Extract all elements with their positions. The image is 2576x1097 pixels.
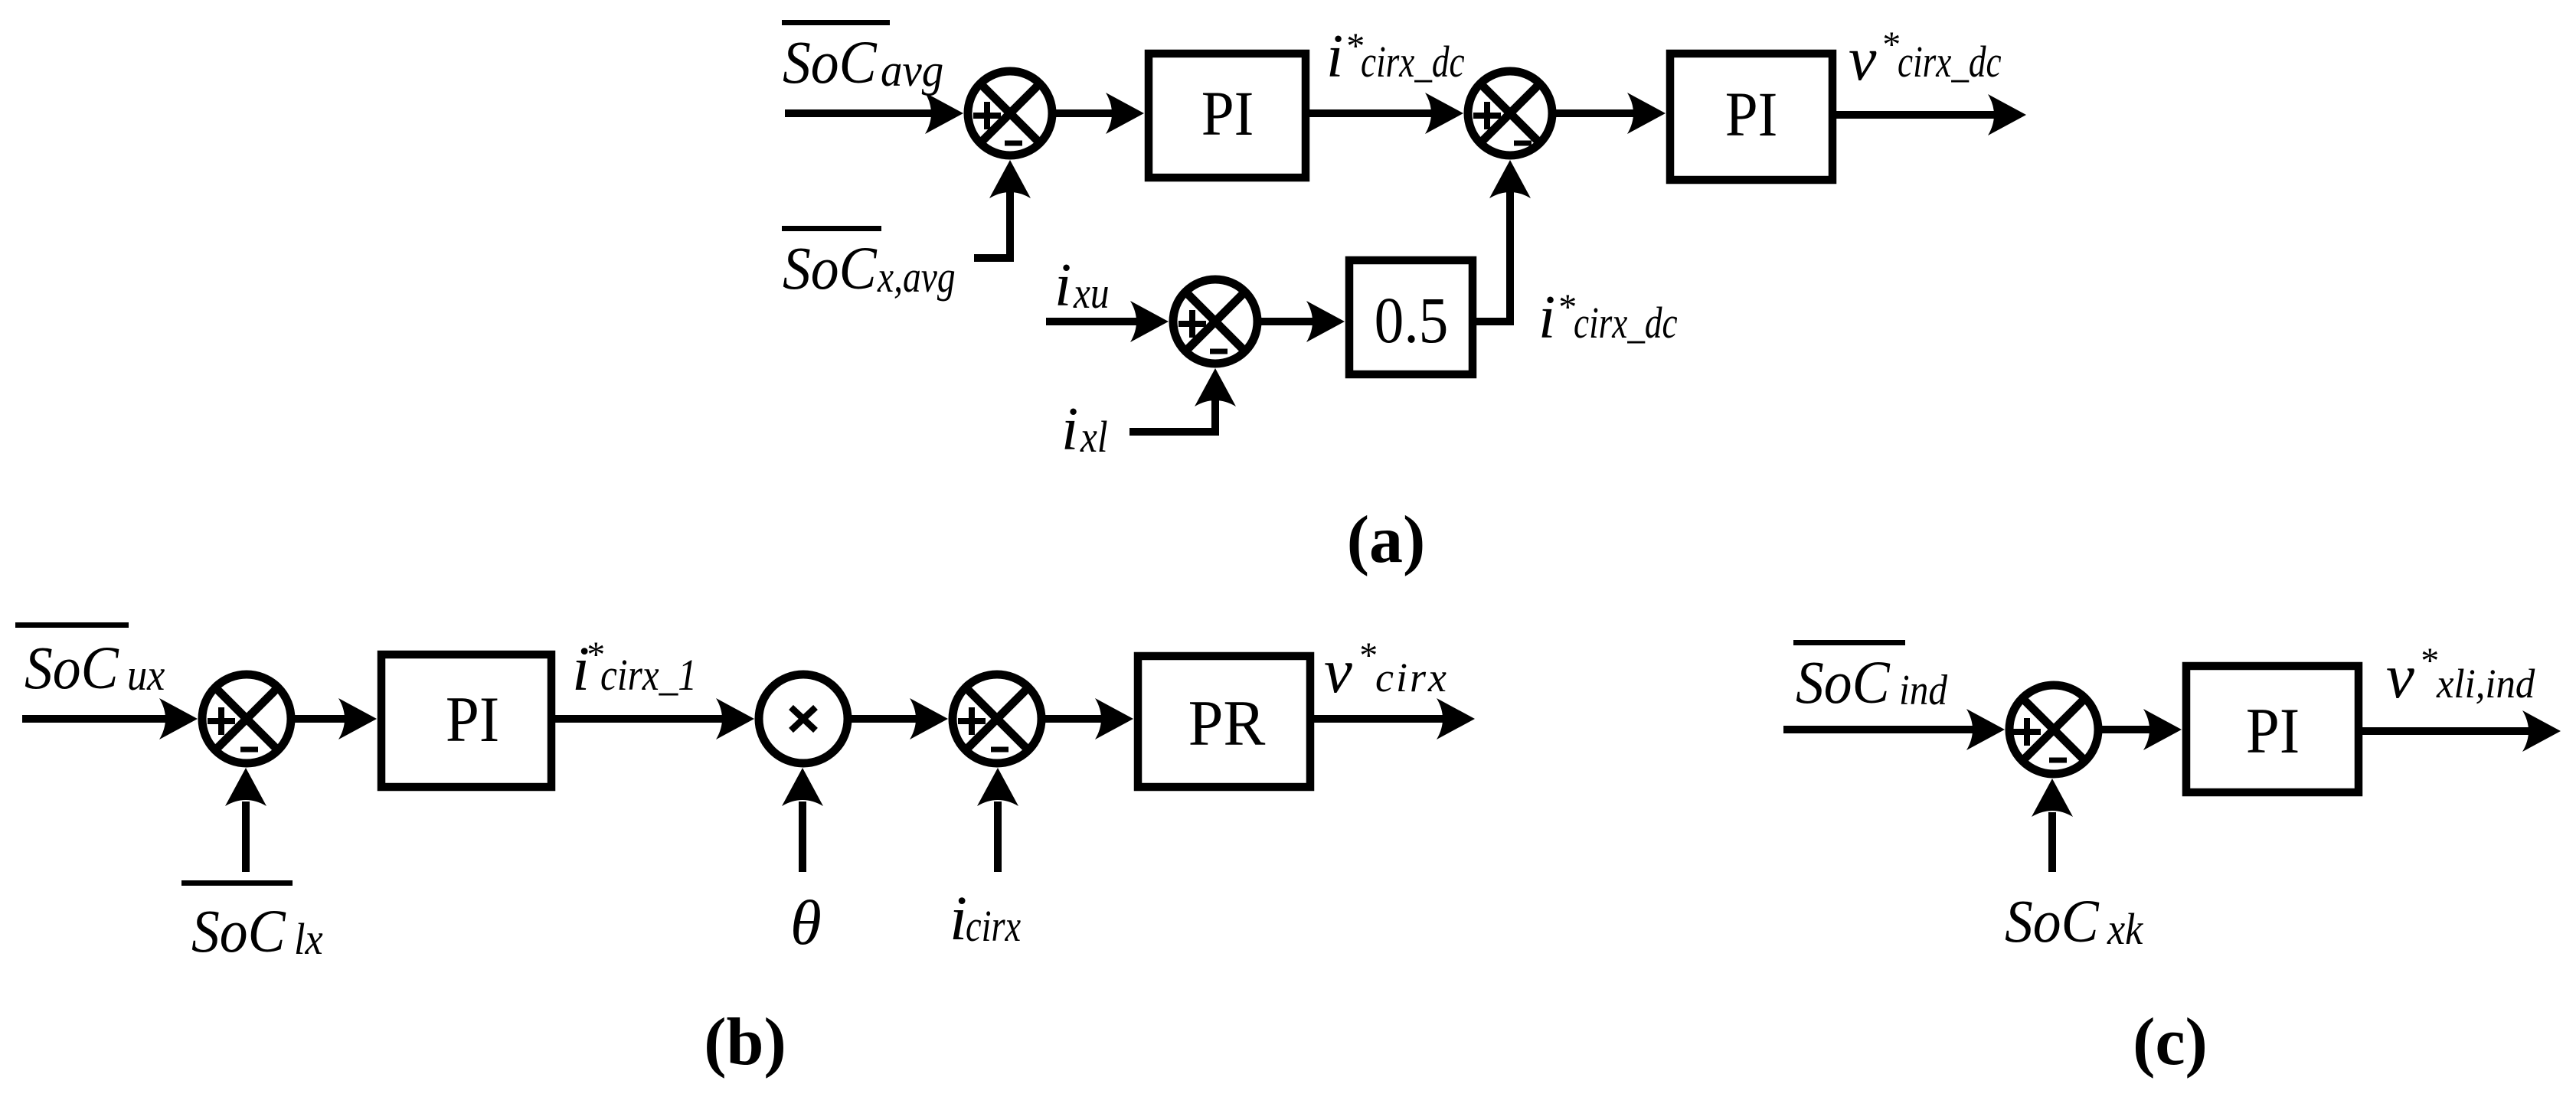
svg-text:SoC: SoC [25,634,119,701]
summing junction C1 [2009,685,2098,774]
svg-text:xu: xu [1073,268,1109,318]
node label i*_cirx_1 [572,633,697,704]
wire SoC_ind input [1783,709,2005,750]
summing junction B1 [202,674,291,763]
wire theta to multiplier [782,768,823,872]
svg-text:i: i [1054,252,1071,319]
block PI (c) [2186,666,2359,792]
multiplier junction M [759,674,848,763]
wire multiplier to B2 [848,698,948,739]
wire B1 to PI(b) [291,698,377,739]
node SoC_ind label with overline [1793,640,1948,717]
summing junction S1 [968,71,1052,155]
block 0.5 [1349,260,1473,374]
node SoC_x,avg label with overline [782,226,956,302]
svg-text:v: v [2386,641,2414,711]
wire C1 to PI(c) [2098,709,2182,750]
svg-text:v: v [1849,24,1877,93]
node theta label [790,887,822,958]
svg-text:0.5: 0.5 [1375,283,1449,357]
wire 0.5 block to S2 minus input [1476,160,1531,325]
node label i_xl [1061,396,1108,463]
svg-text:cirx: cirx [966,902,1021,951]
svg-text:(a): (a) [1347,503,1426,577]
wire i_cirx to B2 minus input [977,768,1018,872]
node label v*_cirx [1324,635,1449,706]
node label i_cirx [950,883,1021,953]
node label v*_xli,ind [2386,641,2535,711]
svg-text:cirx_dc: cirx_dc [1361,38,1465,87]
svg-text:*: * [1358,635,1376,676]
summing junction B2 [953,674,1041,763]
wire SoC_ux input [22,698,198,739]
svg-text:SoC: SoC [1796,648,1890,716]
wire i_xl to S3 minus input [1129,368,1236,436]
svg-text:SoC: SoC [783,28,877,96]
svg-text:cirx_dc: cirx_dc [1898,38,2002,87]
node label i_xu [1054,252,1110,319]
block PR [1138,656,1310,787]
node label v*_cirx_dc [1849,24,2002,93]
svg-text:xli,ind: xli,ind [2436,661,2535,707]
svg-text:v: v [1324,635,1352,706]
svg-text:PI: PI [1725,80,1778,150]
svg-text:(c): (c) [2133,1005,2208,1079]
svg-text:xl: xl [1080,412,1107,462]
svg-text:i: i [1061,396,1078,463]
block PI2 [1670,54,1832,180]
svg-text:SoC: SoC [783,234,877,302]
svg-text:*: * [1881,24,1899,65]
wire S2 to PI2 [1556,93,1666,134]
svg-text:x,avg: x,avg [877,253,956,302]
svg-text:i: i [950,883,967,953]
wire S3 to 0.5 block [1261,301,1345,342]
svg-text:*: * [1557,287,1575,328]
svg-text:i: i [1326,23,1343,90]
block PI1 [1149,54,1306,178]
svg-text:lx: lx [294,914,323,963]
svg-text:cirx_1: cirx_1 [600,650,697,700]
caption (a) [1347,503,1426,577]
svg-text:xk: xk [2107,904,2144,953]
node SoC_lx label with overline [181,880,323,965]
svg-text:(b): (b) [704,1005,786,1079]
node label i*_cirx_dc (top) [1326,23,1465,90]
svg-text:*: * [2419,641,2437,681]
svg-text:PR: PR [1188,687,1266,759]
wire B2 to PR [1041,698,1133,739]
wire PI1 to S2 [1309,93,1463,134]
wire PI(c) output arrow [2362,710,2561,752]
svg-text:avg: avg [881,45,943,96]
svg-text:θ: θ [790,887,822,958]
caption (c) [2133,1005,2208,1079]
svg-text:PI: PI [446,683,499,755]
svg-text:cirx_dc: cirx_dc [1574,299,1678,348]
wire PR output arrow [1314,698,1475,739]
svg-text:cirx: cirx [1375,655,1449,700]
svg-text:PI: PI [1201,80,1254,149]
node SoC_avg label with overline [782,20,943,96]
node SoC_ux label with overline [15,622,165,702]
block PI (b) [381,655,551,787]
svg-text:SoC: SoC [191,897,286,965]
wire SoC_xk to C1 minus input [2032,779,2073,872]
wire PI2 output arrow [1836,94,2026,135]
node SoC_xk label [2005,887,2144,955]
svg-text:PI: PI [2246,694,2300,766]
wire PI(b) to multiplier [551,698,754,739]
node label i*_cirx_dc (near 0.5 block) [1538,284,1678,351]
wire SoC_x,avg to S1 minus input [974,160,1031,262]
caption (b) [704,1005,786,1079]
summing junction S2 [1468,71,1552,155]
wire SoC_avg input [785,93,963,134]
summing junction S3 [1173,279,1257,364]
svg-text:i: i [1538,284,1555,351]
svg-text:ind: ind [1899,667,1948,714]
wire i_xu input [1046,301,1169,342]
svg-text:SoC: SoC [2005,887,2099,955]
wire SoC_lx to B1 minus input [225,768,266,872]
svg-text:ux: ux [127,650,165,699]
wire S1 to PI1 [1056,93,1144,134]
